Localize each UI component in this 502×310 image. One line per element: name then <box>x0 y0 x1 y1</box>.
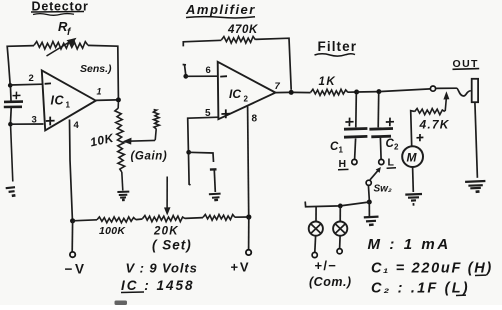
op-amp U1 triangle <box>42 70 96 130</box>
pin label 8 <box>252 114 258 125</box>
lamp connector 1 <box>309 222 323 236</box>
wire pin5 right <box>189 152 214 162</box>
resistor 4.7K <box>415 109 445 115</box>
note V 9 Volts <box>126 261 198 276</box>
wire C2 top <box>377 94 380 128</box>
terminal -V <box>70 252 75 257</box>
ground input <box>6 187 16 196</box>
switch Sw2 pole <box>366 180 371 185</box>
label +V <box>231 260 251 275</box>
note C2 value <box>371 281 470 297</box>
ground switch <box>364 217 379 225</box>
node -V rail <box>70 218 75 223</box>
svg-text:L: L <box>388 157 395 169</box>
node pin3 junction <box>8 122 13 127</box>
label OUT <box>453 58 480 70</box>
wire lamp2 top <box>339 206 341 222</box>
wire pin 6 <box>186 75 218 77</box>
scan smudge <box>115 301 128 306</box>
ground 10K <box>117 192 129 200</box>
wire contact to jack <box>436 88 471 96</box>
svg-text:C₂ : .1F (L): C₂ : .1F (L) <box>371 281 470 297</box>
pin label 5 <box>205 108 211 119</box>
wire pin 5 <box>188 117 219 150</box>
label L <box>387 157 396 169</box>
wire node to ground <box>368 202 370 216</box>
arrow wiper Rf <box>47 38 77 56</box>
label H <box>338 158 349 170</box>
node pin6 <box>183 74 188 79</box>
resistor gain stub <box>153 110 159 130</box>
resistor rail third <box>203 215 235 221</box>
wire pole to node <box>367 185 370 199</box>
wire rail mid2 <box>185 217 203 220</box>
wire lamp1 bottom <box>314 236 317 253</box>
svg-text:7: 7 <box>275 81 281 92</box>
capacitor C input <box>4 87 23 123</box>
label Filter <box>315 39 358 56</box>
svg-text:Amplifier: Amplifier <box>185 2 256 17</box>
wire rail left <box>73 220 97 221</box>
wire 10K to ground <box>122 172 123 191</box>
resistor 1k <box>311 89 348 95</box>
pin label 3 <box>32 115 37 126</box>
wire node to 1k <box>294 91 311 93</box>
svg-text:2: 2 <box>244 95 249 104</box>
svg-text:( Set): ( Set) <box>152 238 192 253</box>
node C1 <box>354 90 359 95</box>
lamp connector 2 <box>333 222 347 236</box>
svg-text:IC : 1458: IC : 1458 <box>121 278 195 293</box>
wiper 20K <box>164 177 171 216</box>
wire 4.7K to meter <box>411 111 415 147</box>
ground OUT <box>465 181 485 192</box>
wire feedback top-left <box>7 46 34 86</box>
resistor 470K <box>222 37 256 44</box>
wire gain stub <box>155 129 156 140</box>
capacitor C2 plus <box>386 118 394 127</box>
terminal lamp2 <box>337 249 342 254</box>
pin label 7 <box>275 81 281 92</box>
switch Sw2 arm <box>370 167 381 180</box>
op-amp U1 label <box>51 94 71 110</box>
wire meter to ground <box>412 167 415 192</box>
jack OUT <box>472 79 478 102</box>
node output IC1 <box>116 97 121 102</box>
pin label 4 <box>74 120 80 131</box>
meter plus <box>417 134 424 141</box>
contact H <box>352 159 357 164</box>
wire jack to ground <box>475 102 478 178</box>
svg-text:1: 1 <box>97 87 102 97</box>
label Sw2 <box>374 184 392 195</box>
capacitor pin5 <box>210 169 217 192</box>
wire connector rail <box>305 202 369 207</box>
wire pin5 stub down <box>189 154 191 185</box>
node output IC2 <box>289 90 294 95</box>
label Com <box>309 275 352 289</box>
svg-text:1: 1 <box>66 101 71 110</box>
node pin2 junction <box>8 83 13 88</box>
label Rf <box>58 19 72 38</box>
svg-text:IC: IC <box>51 94 65 108</box>
label Detector <box>31 0 89 15</box>
wire C1 bottom <box>355 138 356 159</box>
contact L <box>379 159 384 164</box>
capacitor C1 plus <box>345 118 353 127</box>
wire pin 3 <box>10 123 43 125</box>
node lamp2 junction <box>338 204 343 209</box>
label C2 <box>386 138 400 152</box>
pin label 6 <box>206 65 211 76</box>
svg-text:M : 1 mA: M : 1 mA <box>368 236 451 253</box>
op-amp U1 plus <box>46 117 55 126</box>
label 1k <box>319 76 337 88</box>
terminal lamp1 <box>312 252 317 257</box>
wire C1 top <box>355 94 358 127</box>
op-amp U2 minus <box>220 75 227 77</box>
note M 1mA <box>368 236 451 253</box>
label 20K <box>153 226 179 238</box>
svg-text:M: M <box>407 151 418 165</box>
terminal +V <box>246 250 251 255</box>
label Amplifier <box>185 2 256 18</box>
svg-text:1K: 1K <box>319 76 337 88</box>
svg-text:100K: 100K <box>99 225 126 237</box>
wire pin 4 <box>70 120 73 220</box>
op-amp U2 label <box>229 87 249 104</box>
wire output to 10K <box>117 102 119 108</box>
resistor 20K <box>143 216 186 222</box>
wire rail right <box>235 216 249 218</box>
svg-text:+V: +V <box>231 260 251 275</box>
wire C2 bottom <box>379 138 382 160</box>
wire pin 2 <box>10 83 42 86</box>
wire output IC1 <box>96 99 117 102</box>
svg-text:Sens.): Sens.) <box>80 63 112 75</box>
note C1 value <box>371 261 493 277</box>
meter M <box>402 146 423 167</box>
wire pin 8 <box>248 107 249 216</box>
wire C2 to switch contact <box>379 89 431 92</box>
wire C1 to C2 <box>357 91 379 93</box>
op-amp U1 minus <box>45 82 51 84</box>
svg-text:3: 3 <box>32 115 37 126</box>
label 4.7K <box>419 118 450 132</box>
svg-text:+/−: +/− <box>315 258 338 273</box>
svg-text:1: 1 <box>339 146 344 155</box>
wire 1k to C1 <box>348 91 357 93</box>
resistor Rf <box>34 42 88 50</box>
label 470K <box>227 24 258 36</box>
op-amp U2 plus <box>221 109 230 118</box>
label Gain <box>131 151 168 163</box>
svg-text:2: 2 <box>29 73 34 84</box>
svg-text:C₁ = 220uF (H): C₁ = 220uF (H) <box>371 261 493 277</box>
svg-text:Sw₂: Sw₂ <box>374 184 392 195</box>
wire to ground left <box>11 126 13 182</box>
svg-text:8: 8 <box>252 114 258 125</box>
wire feedback IC2 left <box>183 40 221 46</box>
capacitor C1 <box>344 129 367 138</box>
node pin5 <box>186 150 191 155</box>
wire rail mid1 <box>136 218 143 221</box>
label plus-minus <box>315 258 338 273</box>
svg-text:Filter: Filter <box>318 39 358 54</box>
svg-text:H: H <box>339 158 347 170</box>
wire feedback IC2 right <box>256 38 292 90</box>
wire output IC2 <box>276 91 290 93</box>
svg-text:(Gain): (Gain) <box>131 151 168 163</box>
note IC 1458 <box>121 278 195 293</box>
wire input stub IC2 <box>183 65 186 75</box>
svg-text:4.7K: 4.7K <box>419 118 450 132</box>
resistor 100K <box>97 217 136 223</box>
op-amp U2 triangle <box>218 62 276 119</box>
label Set <box>152 238 192 253</box>
node C2 <box>376 89 381 94</box>
label 100K <box>99 225 126 237</box>
svg-text:(Com.): (Com.) <box>309 275 352 289</box>
node switch ground <box>367 200 372 205</box>
svg-text:−V: −V <box>65 262 87 277</box>
wire +V terminal <box>248 217 250 250</box>
svg-text:20K: 20K <box>153 226 179 238</box>
svg-text:4: 4 <box>74 120 80 131</box>
ground meter <box>405 194 422 204</box>
wire feedback top-right <box>88 45 118 97</box>
wire -V terminal <box>71 221 73 252</box>
svg-text:2: 2 <box>394 143 399 152</box>
resistor 10K <box>115 108 125 172</box>
ground pin5 <box>209 194 221 201</box>
label Sens <box>80 63 112 75</box>
capacitor C2 <box>369 129 393 137</box>
wire lamp2 bottom <box>339 236 342 249</box>
pin label 1 <box>97 87 102 97</box>
svg-text:6: 6 <box>206 65 211 76</box>
svg-text:IC: IC <box>229 87 241 101</box>
arrow 4.7K <box>443 91 449 111</box>
wiper arrow 10K <box>123 138 156 145</box>
label 10K <box>89 131 116 150</box>
contact circle <box>430 86 435 91</box>
capacitor C input plus <box>13 92 21 100</box>
label -V <box>65 262 87 277</box>
wire lamp1 top <box>315 206 317 221</box>
pin label 2 <box>29 73 34 84</box>
label C1 <box>330 141 344 155</box>
svg-text:470K: 470K <box>227 24 258 36</box>
svg-text:V : 9 Volts: V : 9 Volts <box>126 261 198 276</box>
node +V rail <box>246 214 251 219</box>
